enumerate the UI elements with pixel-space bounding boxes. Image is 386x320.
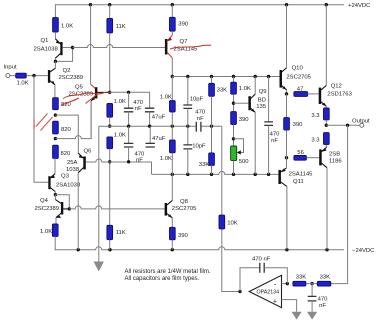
resistor 3.3 (upper output)	[311, 108, 329, 125]
svg-text:10pF: 10pF	[192, 144, 206, 150]
svg-text:135: 135	[256, 104, 267, 110]
resistor 390 (Q7 emitter)	[170, 5, 189, 32]
svg-text:Q6: Q6	[84, 149, 93, 155]
svg-text:2SB: 2SB	[329, 151, 340, 157]
junction dots on +24V rail	[89, 3, 328, 6]
wire: base line to Q7 with hops over x=90.4 and x=109.7	[73, 45, 165, 48]
svg-text:2SD1763: 2SD1763	[327, 92, 352, 98]
resistor 820 (third)	[53, 145, 71, 158]
node: mid rail junction at x=109.7	[108, 125, 111, 128]
wire: Q1 base to junction and current-mirror loop	[55, 48, 72, 62]
svg-text:33K: 33K	[320, 274, 331, 280]
svg-text:1.0K: 1.0K	[17, 80, 29, 86]
capacitor 470nF (series, mid rail)	[195, 110, 206, 132]
svg-text:OPA2134: OPA2134	[257, 290, 280, 296]
wire: 820 to Q3 emitter	[54, 158, 56, 173]
potentiometer 500 (bias trim)	[231, 139, 250, 175]
svg-text:1.0K: 1.0K	[40, 229, 52, 235]
node: output junction	[325, 124, 328, 127]
svg-text:nF: nF	[135, 106, 142, 112]
node: Q1/Q2 collector junction	[54, 60, 57, 63]
transistor Q9 BD135 (bias servo NPN)	[248, 77, 266, 175]
node: inverting input junction	[286, 282, 289, 285]
svg-text:56: 56	[297, 150, 304, 156]
svg-text:47: 47	[297, 86, 304, 92]
svg-text:470: 470	[270, 132, 281, 138]
mid rail wire y=126.2 with series 470nF position	[99, 125, 222, 127]
svg-text:820: 820	[61, 127, 72, 133]
ground symbol (left)	[94, 262, 104, 272]
resistor 3.3 (lower output)	[311, 133, 329, 148]
node: junction between 820 resistors (lower)	[54, 137, 57, 140]
svg-text:470 nF: 470 nF	[252, 256, 271, 262]
wire: Q5 base box top rail	[110, 92, 150, 108]
transistor Q6 2SA1038 (PNP cascode)	[66, 149, 92, 250]
red annotation at left edge	[33, 120, 35, 129]
node: pot top junction	[232, 137, 235, 140]
svg-text:+24VDC: +24VDC	[348, 3, 371, 9]
resistor 1.0K (Q1 emitter)	[53, 18, 74, 32]
transistor Q12 2SD1763 (output NPN)	[319, 5, 353, 108]
resistor 11K (lower)	[107, 225, 126, 249]
svg-text:2SC2705: 2SC2705	[286, 74, 311, 80]
capacitor 470nF (across bias network)	[264, 77, 280, 175]
ground symbol (servo filter)	[307, 312, 317, 320]
svg-text:Output: Output	[352, 118, 370, 124]
resistor 390 (bias divider)	[231, 112, 250, 146]
resistor 33K (lower)	[199, 126, 215, 174]
transistor Q11 2SA1145 (driver PNP)	[278, 158, 313, 250]
node: servo filter junction	[310, 282, 313, 285]
svg-text:390: 390	[178, 21, 189, 27]
resistor 1.0K (bias divider top)	[231, 77, 251, 112]
transistor Q5 2SC2389 (NPN cascode, red-marked)	[69, 5, 110, 139]
resistor 33K (upper)	[209, 77, 227, 127]
svg-text:470: 470	[195, 110, 206, 116]
wire: Q4/Q8 base line with hops over x=78.2, 98.7, 109.7	[69, 206, 164, 209]
wire: 11K down to Q5 base node	[109, 33, 111, 92]
red annotation marks left of 820 resistors	[36, 114, 53, 131]
wire: inverting input stub	[282, 283, 288, 285]
resistor 1.0K (lower compensation)	[160, 126, 175, 174]
wire: R down through base-wire hop to 11K lower	[109, 149, 111, 226]
svg-text:33K: 33K	[199, 162, 210, 168]
capacitor 47uF (lower)	[146, 126, 166, 147]
svg-text:2SC2705: 2SC2705	[172, 206, 197, 212]
svg-text:470: 470	[135, 151, 146, 157]
svg-text:33K: 33K	[296, 274, 307, 280]
resistor 390 (driver pull)	[284, 94, 303, 158]
svg-text:Q8: Q8	[180, 199, 189, 205]
svg-text:Q7: Q7	[180, 39, 188, 45]
svg-text:390: 390	[178, 233, 189, 239]
svg-text:2SC2389: 2SC2389	[35, 206, 60, 212]
junction dots on -24V rail	[77, 248, 329, 251]
resistor 1.0K (input series)	[16, 73, 29, 86]
wire: Q3 collector node down to Q4 collector	[54, 195, 56, 200]
junction dots on lower VAS wire	[171, 173, 271, 176]
svg-text:1.0K: 1.0K	[61, 24, 73, 30]
svg-text:Q12: Q12	[331, 83, 342, 89]
transistor Q4 2SC2389 (NPN, diode connected)	[35, 198, 70, 224]
svg-text:11K: 11K	[116, 24, 126, 30]
node: 470nF top lead junction	[127, 91, 130, 94]
resistor 1.0K (upper middle)	[107, 99, 126, 117]
svg-text:33K: 33K	[217, 88, 228, 94]
svg-text:470: 470	[318, 297, 329, 303]
svg-text:Input: Input	[4, 65, 17, 71]
transistor Q3 2SA1038 (PNP)	[48, 174, 81, 195]
wire: R1 to Q1 emitter	[54, 32, 56, 39]
svg-text:All resistors are 1/4W metal f: All resistors are 1/4W metal film.	[125, 269, 211, 275]
svg-text:All capacitors are film types.: All capacitors are film types.	[125, 276, 200, 282]
red annotation squiggle over Q7 label	[170, 45, 211, 49]
node: 470nF lower lead junction	[127, 160, 130, 163]
resistor 11K (upper)	[107, 5, 126, 33]
svg-text:3.3: 3.3	[311, 113, 320, 119]
transistor Q2 2SC2389 (NPN)	[48, 61, 83, 97]
node: feedback sense junction	[346, 124, 349, 127]
svg-text:2SA1038: 2SA1038	[34, 47, 59, 53]
resistor 820 (second)	[53, 121, 72, 134]
wire: input resistor to Q2 base	[26, 75, 48, 77]
capacitor 470nF (servo filter)	[308, 284, 328, 312]
node: Q11 emitter / 56 junction	[285, 156, 288, 159]
svg-text:+: +	[273, 298, 277, 305]
transistor Q13 2SB1186 (output PNP)	[319, 145, 342, 250]
node: op-amp output junction	[238, 290, 241, 293]
svg-text:nF: nF	[271, 138, 278, 144]
wire: lower 820 junction to Q5 emitter with hop over x=78.3	[55, 101, 91, 139]
node: Q3/Q4 collector junction	[54, 193, 57, 196]
ground symbol (op-amp +)	[292, 312, 302, 320]
svg-text:390: 390	[293, 122, 304, 128]
node: input node junction	[32, 74, 35, 77]
svg-text:Q3: Q3	[61, 174, 70, 180]
svg-text:Q5: Q5	[75, 85, 84, 91]
node: Q5 base junction	[108, 91, 111, 94]
svg-text:820: 820	[61, 151, 72, 157]
output wire and terminal	[326, 118, 370, 127]
capacitor 470nF (upper)	[124, 92, 144, 126]
capacitor 10pF (upper)	[183, 77, 203, 127]
transistor Q7 2SA1145 (PNP mirror, red-marked)	[165, 31, 198, 76]
svg-text:1.0K: 1.0K	[239, 86, 251, 92]
node: Q9 base tap junction	[232, 102, 235, 105]
svg-text:Q10: Q10	[292, 66, 304, 72]
capacitor 10pF (lower)	[183, 126, 206, 174]
svg-text:3.3: 3.3	[311, 138, 320, 144]
wire: top rail corner down to R1	[54, 4, 56, 17]
svg-text:BD: BD	[258, 98, 266, 104]
svg-text:nF: nF	[319, 303, 326, 309]
svg-text:25A: 25A	[67, 160, 78, 166]
svg-text:1038: 1038	[66, 167, 80, 173]
transistor Q1 2SA1038 (PNP)	[34, 38, 63, 61]
svg-text:2SC2389: 2SC2389	[59, 75, 84, 81]
resistor 47 (driver to output)	[294, 86, 319, 96]
note text	[125, 269, 211, 282]
transistor Q8 2SC2705 (NPN mirror)	[165, 174, 197, 227]
wire: input node down to Q3 base	[34, 76, 48, 183]
wire: 820 junction right and down to Q6 emitter	[55, 115, 78, 153]
resistor 1.0K (lower middle)	[107, 133, 126, 149]
junction dots on VAS top bus	[186, 75, 270, 78]
wire: non-inverting input to ground	[282, 300, 297, 312]
svg-text:Q11: Q11	[293, 179, 304, 185]
svg-text:Q4: Q4	[40, 198, 49, 204]
svg-text:500: 500	[239, 159, 250, 165]
svg-text:2SA1145: 2SA1145	[289, 171, 314, 177]
svg-text:2SA1038: 2SA1038	[56, 183, 81, 189]
svg-text:1.0K: 1.0K	[114, 133, 126, 139]
wire: R to mid rail	[109, 117, 111, 126]
resistor 1.0K (Q4 emitter)	[40, 224, 58, 236]
resistor 10K (servo injection)	[219, 215, 238, 229]
svg-text:1.0K: 1.0K	[160, 95, 172, 101]
svg-text:47uF: 47uF	[152, 114, 166, 120]
capacitor 470nF (servo feedback)	[240, 256, 287, 291]
node: Q10 emitter junction	[285, 92, 288, 95]
node: Q4 collector/base junction	[68, 207, 71, 210]
wire: base tap to Q9	[234, 102, 249, 104]
resistor 33K (servo output 2)	[306, 274, 331, 286]
svg-text:47uF: 47uF	[152, 136, 166, 142]
resistor 1.0K (upper compensation)	[160, 77, 175, 127]
red annotation squiggle over Q5	[61, 92, 112, 106]
svg-text:10pF: 10pF	[190, 96, 204, 102]
svg-text:1.0K: 1.0K	[114, 99, 126, 105]
wire: mirror loop Q4 collector	[55, 195, 69, 209]
resistor 56 (lower driver to base)	[294, 150, 319, 160]
-24V power rail with hops over x=98.7 and x=221.8	[55, 247, 344, 250]
node: Q7 collector / VAS top bus junction	[171, 75, 174, 78]
node: Q1 base / Q7 base wire junction	[71, 46, 74, 49]
servo line: mid rail corner down through 10K to op-amp output	[222, 126, 240, 291]
svg-text:1.0K: 1.0K	[160, 156, 172, 162]
resistor 390 (Q8 emitter)	[170, 227, 189, 249]
lower VAS node wire y=174.35 with hop over x=221.8	[152, 171, 279, 174]
capacitor 470nF (lower)	[124, 126, 145, 163]
node: junction between 820 resistors (upper)	[54, 113, 57, 116]
svg-text:−24VDC: −24VDC	[352, 248, 375, 254]
svg-text:10K: 10K	[227, 221, 238, 227]
svg-text:1186: 1186	[329, 158, 342, 164]
capacitor 47uF (upper)	[145, 108, 166, 126]
svg-text:Q1: Q1	[41, 38, 49, 44]
input terminal	[4, 65, 17, 78]
+24V power rail	[55, 4, 344, 6]
VAS top bus wire y=76.5	[172, 76, 279, 78]
junction dots on mid rail	[127, 125, 213, 128]
svg-text:Q2: Q2	[63, 68, 71, 74]
svg-text:Q9: Q9	[259, 89, 267, 95]
svg-text:nF: nF	[197, 116, 204, 122]
node: lower box bottom junction at x=109.7	[108, 160, 111, 163]
wire: Q6 base to lower box bottom rail, hop over x=98.8, corner down at x=151.5	[86, 159, 152, 174]
svg-text:390: 390	[239, 117, 250, 123]
op-amp U1 OPA2134 (DC servo, pointing left)	[249, 275, 281, 307]
svg-text:11K: 11K	[116, 230, 126, 236]
wire: R to -24V rail	[54, 236, 56, 249]
transistor Q10 2SC2705 (driver NPN)	[280, 5, 312, 94]
resistor 820 (first)	[53, 98, 72, 110]
resistor 33K (servo output 1)	[293, 274, 306, 286]
wire: output sense line down to servo 33K	[331, 125, 348, 283]
wire: mid rail left end down to ground (passes hops)	[98, 126, 100, 261]
